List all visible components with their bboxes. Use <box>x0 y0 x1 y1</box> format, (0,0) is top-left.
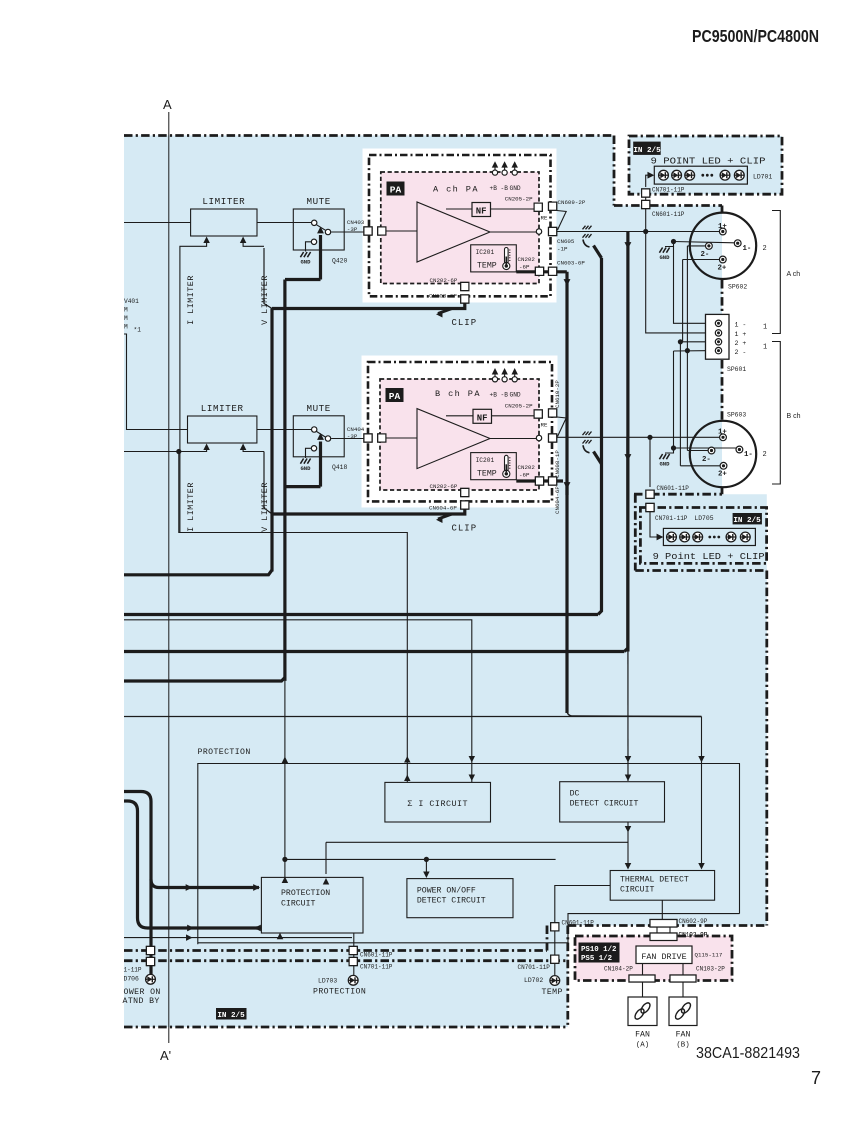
svg-text:I LIMITER: I LIMITER <box>186 275 196 325</box>
wire CN602 to CN102 <box>657 927 670 933</box>
svg-text:CN601-11P: CN601-11P <box>652 211 685 218</box>
PA B inner pink board <box>380 379 539 490</box>
LED LD706 <box>146 974 156 984</box>
label CN202-6P right B <box>518 464 536 479</box>
wire hook power-on from page edge <box>124 792 151 942</box>
label CN701-11P front <box>360 964 393 971</box>
label CN202-6P right A <box>518 256 536 271</box>
svg-text:CN104-2P: CN104-2P <box>604 966 633 973</box>
main board dash-dot border bottom <box>124 1026 568 1029</box>
connector CN601-11P A top <box>642 200 650 208</box>
LED bar dots B <box>708 536 720 539</box>
label CN609-2P A <box>558 199 586 206</box>
svg-text:CLIP: CLIP <box>452 524 478 534</box>
dc detect circuit box <box>560 782 665 822</box>
ground mute B <box>300 459 311 473</box>
label STAND BY fragment <box>123 997 160 1006</box>
relay hook A <box>557 211 566 231</box>
label LD701 <box>753 174 772 181</box>
PA B GND supply <box>510 368 521 399</box>
LED LD701 5 <box>734 170 744 180</box>
mute A switch output contact <box>325 229 365 234</box>
label FAN B <box>676 1031 691 1050</box>
connector CN603-6P A right top <box>549 267 557 275</box>
op-amp triangle A <box>417 202 490 262</box>
wire temp A to connectors <box>516 270 567 273</box>
fan B box <box>669 997 697 1026</box>
wire clip sense bus <box>179 452 407 783</box>
label CN601-11P right <box>562 920 595 927</box>
wire A 2+ to SP601 <box>683 260 715 342</box>
node SP601 2+ junction <box>678 339 683 344</box>
connector CN605-1P A <box>549 227 557 235</box>
main board dash-dot border right of CN601-11P <box>650 204 722 207</box>
svg-text:CN601-11P: CN601-11P <box>360 952 393 959</box>
main board dash-dot border toward CN601 <box>614 204 641 207</box>
PA A inner pink board <box>381 172 539 284</box>
svg-text:GND: GND <box>510 392 521 399</box>
connector bar CN103-2P <box>670 975 696 982</box>
wire mute bus to page edge <box>124 678 285 682</box>
svg-text:(A): (A) <box>636 1042 649 1050</box>
thermometer icon A <box>503 248 511 270</box>
PROTECTION label <box>198 748 251 757</box>
arrow protection line up <box>282 757 288 763</box>
svg-text:GND: GND <box>659 254 670 261</box>
temp A wire corner to protection line <box>567 710 702 717</box>
label CN701-11P A <box>652 187 685 194</box>
connector CN604-6P B right <box>549 477 557 485</box>
dc detect circuit label <box>570 790 639 809</box>
wire fan drive to CN104 <box>642 964 644 976</box>
TEMP label A <box>477 262 497 271</box>
label A ch <box>787 271 801 278</box>
PA B +B supply <box>490 368 499 399</box>
V LIMITER label B <box>260 482 270 532</box>
border vertical at x=568 <box>566 926 569 1028</box>
svg-text:CN701-11P: CN701-11P <box>360 964 393 971</box>
svg-text:Q115-117: Q115-117 <box>695 952 723 959</box>
svg-text:SP601: SP601 <box>727 366 746 373</box>
svg-text:Q420: Q420 <box>332 258 348 265</box>
svg-text:CN605: CN605 <box>557 238 575 245</box>
svg-text:MUTE: MUTE <box>306 196 330 207</box>
speaker boundary dash-dot segment SP602-SP601 <box>721 280 724 316</box>
9 POINT LED + CLIP label <box>651 156 766 167</box>
label B ch <box>787 413 801 420</box>
front panel border upper <box>124 949 547 952</box>
wire B out tap down <box>626 437 629 651</box>
border below speakers <box>634 493 722 496</box>
connector bar CN602-9P top <box>650 920 677 928</box>
svg-text:GND: GND <box>510 185 521 192</box>
mute B switch output contact <box>325 436 365 441</box>
wire B 2+ down <box>679 342 681 466</box>
wire amp A output <box>490 231 536 233</box>
wire sensor B to bus <box>594 452 602 465</box>
PA B title B ch PA <box>435 389 481 399</box>
section marker A' <box>160 1048 171 1063</box>
connector bar CN104-2P top <box>629 975 655 982</box>
svg-text:2-: 2- <box>701 251 710 259</box>
limiter B box <box>188 416 257 443</box>
op-amp triangle B <box>417 409 490 469</box>
arrow clip sense into protection line 2 <box>404 775 410 781</box>
connector CN202-6P B bottom top <box>461 488 469 496</box>
sigma I circuit label <box>407 799 468 809</box>
label CN701-11P right <box>518 964 551 971</box>
label CN103-2P <box>696 966 725 973</box>
power on-off detect box <box>407 879 513 918</box>
connector CN603-6P A bottom <box>461 295 469 303</box>
label CN603-6P A <box>557 260 585 267</box>
SP602 terminal 2- <box>687 243 712 260</box>
wire output bus to page edge 3 <box>124 650 624 653</box>
connector CN601-11P right <box>551 923 559 931</box>
label CN610-2P B <box>554 380 561 408</box>
svg-text:1: 1 <box>763 344 767 352</box>
label CN603-6P bottom A <box>429 293 457 300</box>
limiter A box <box>191 209 257 236</box>
wire power-on chain <box>149 941 152 975</box>
wire mute drive bus vertical <box>285 280 321 681</box>
SP603 terminal 2+ <box>680 462 727 478</box>
ground mute A <box>300 252 311 266</box>
mute A switch input contact <box>293 220 317 225</box>
svg-text:V LIMITER: V LIMITER <box>260 482 270 532</box>
label CN202-6P bottom A <box>430 277 458 284</box>
fan A icon <box>633 1001 651 1020</box>
svg-text:A: A <box>163 97 172 112</box>
wire dc to protection <box>323 842 628 884</box>
svg-text:B ch: B ch <box>787 413 801 420</box>
svg-text:2+: 2+ <box>718 265 727 273</box>
wire protection circuit to front panel <box>353 933 355 975</box>
svg-text:M: M <box>124 315 128 322</box>
svg-text:IC201: IC201 <box>476 457 495 464</box>
arrow protection feed 2 <box>253 884 260 891</box>
svg-text:CN202-6P: CN202-6P <box>430 277 458 284</box>
svg-text:PA: PA <box>390 185 402 196</box>
svg-text:IN 2/5: IN 2/5 <box>633 147 661 155</box>
svg-text:CN202: CN202 <box>518 256 536 263</box>
LED LD705 3 <box>693 532 703 542</box>
label 1-11P fragment <box>124 967 142 974</box>
connector CN205-2P B top <box>534 410 542 418</box>
svg-text:SP602: SP602 <box>728 284 747 291</box>
label CN404-3P <box>347 426 365 440</box>
connector CN604-6P B right top <box>549 477 557 485</box>
wire thermal to CN602 <box>661 900 663 919</box>
svg-text:PS10 1/2: PS10 1/2 <box>581 946 616 954</box>
LED LD705 2 <box>680 532 690 542</box>
svg-text:ATND BY: ATND BY <box>123 997 160 1006</box>
V limiter A feedback <box>240 237 264 247</box>
clip A wire <box>264 248 465 309</box>
label CN102-9P <box>679 931 708 938</box>
IC201 label A <box>476 249 495 256</box>
svg-text:CN103-2P: CN103-2P <box>696 966 725 973</box>
wire CN104 to fan A <box>642 982 644 997</box>
arrow standby feed 1 <box>187 925 194 932</box>
label CN403-3P <box>347 219 365 233</box>
wire NF B to CN205 <box>492 415 535 417</box>
wire hook stand-by from page edge <box>124 801 258 928</box>
connector CN601-11P A <box>642 200 650 208</box>
label CN102-9P top <box>679 931 708 938</box>
wire protection thick into box <box>151 880 259 888</box>
svg-text:7: 7 <box>811 1068 821 1088</box>
SP601 terminal 2+ <box>715 339 746 347</box>
label CN205-2P B <box>505 403 533 410</box>
speaker SP603 <box>690 421 756 487</box>
wire temp to thermal vertical <box>698 717 704 870</box>
thermometer icon B <box>503 455 511 477</box>
connector CN201-3P B top <box>378 434 386 442</box>
arrow into protection circuit top <box>282 877 288 883</box>
svg-text:RE: RE <box>541 422 548 429</box>
LED bar dots <box>701 174 713 177</box>
thermal detect box <box>610 871 714 901</box>
connector CN403-3P <box>364 227 372 235</box>
front panel border upper corner up <box>546 926 549 951</box>
connector CN610-2P B top <box>549 409 557 417</box>
connector CN609-2P A top <box>549 202 557 210</box>
I LIMITER label B <box>186 482 196 532</box>
mute A drive arrow <box>317 227 324 280</box>
connector CN601-11P B top <box>646 490 654 498</box>
svg-text:CN202-6P: CN202-6P <box>430 483 458 490</box>
relay RE label A <box>541 215 548 222</box>
speaker SP602 <box>690 213 756 279</box>
wire SP601 2- line <box>674 351 716 448</box>
LED LD705 4 <box>726 532 736 542</box>
svg-text:CN604-6P: CN604-6P <box>554 486 561 514</box>
bracket channel 2 B label <box>763 451 767 459</box>
protection vertical from mute bus <box>284 681 286 877</box>
label D706 fragment <box>124 976 140 983</box>
connector CN403-3P top <box>364 227 372 235</box>
document number <box>696 1045 800 1062</box>
arrow standby feed 2 <box>254 925 261 932</box>
power on-off detect label <box>417 886 486 906</box>
ground B speaker <box>659 445 676 467</box>
label CN601-11P B <box>657 485 690 492</box>
svg-text:IC201: IC201 <box>476 249 495 256</box>
label FAN A <box>635 1031 650 1050</box>
speaker boundary dash-dot segment above SP602 <box>721 206 724 214</box>
mute A label <box>306 196 330 207</box>
node A output CN601 junction <box>643 229 648 234</box>
svg-text:TEMP: TEMP <box>542 988 563 997</box>
clip B wire <box>264 452 465 515</box>
svg-text:A ch PA: A ch PA <box>433 185 479 195</box>
svg-text:LIMITER: LIMITER <box>201 403 244 414</box>
svg-text:CN603-6P: CN603-6P <box>557 260 585 267</box>
NF B feedback line <box>446 415 473 417</box>
V LIMITER label A <box>260 275 270 325</box>
thermal detect label <box>620 876 689 895</box>
node I limiter bus junction <box>176 449 181 454</box>
PA A -B supply <box>501 161 509 192</box>
current sensor B <box>583 432 592 453</box>
svg-text:CN609-2P: CN609-2P <box>558 199 586 206</box>
svg-text:CN202: CN202 <box>518 464 536 471</box>
arrow into power detect <box>423 859 429 878</box>
IN 2/5 tag top <box>633 142 661 156</box>
clip B arrow stub <box>436 514 452 523</box>
svg-text:FAN: FAN <box>676 1031 691 1040</box>
wire NF A to CN205 <box>491 208 535 210</box>
svg-text:GND: GND <box>300 259 311 266</box>
wire dc detect top arrows <box>625 756 631 781</box>
connector bar CN104-2P <box>629 975 655 982</box>
svg-text:CN205-2P: CN205-2P <box>505 196 533 203</box>
PA A label tag <box>387 182 405 196</box>
svg-text:LD703: LD703 <box>318 978 337 985</box>
speaker boundary dash-dot segment SP601-SP603 <box>721 360 724 422</box>
label CN202-6P bottom B <box>430 483 458 490</box>
fan A box <box>628 997 657 1026</box>
main board dash-dot border top <box>124 134 614 137</box>
wire CN102 to fan drive <box>662 941 664 947</box>
connector power-on lower top <box>146 957 154 965</box>
svg-text:V401: V401 <box>124 298 139 305</box>
svg-text:Q418: Q418 <box>332 464 348 471</box>
svg-text:CN604-6P: CN604-6P <box>429 505 457 512</box>
wire CN601A chain <box>645 197 647 232</box>
svg-text:1-: 1- <box>744 451 753 459</box>
svg-text:DETECT CIRCUIT: DETECT CIRCUIT <box>417 897 486 906</box>
temp B wire join <box>564 482 571 495</box>
mute A gnd elbow <box>306 242 311 252</box>
mute B label <box>306 403 330 414</box>
connector CN701-11P A <box>642 189 650 197</box>
wire output A tap corner <box>624 232 628 652</box>
svg-text:-6P: -6P <box>519 472 530 479</box>
IN2/5 bottom board dash-dot box <box>640 508 766 564</box>
clip B label <box>452 524 478 534</box>
svg-text:CN701-11P: CN701-11P <box>655 515 688 522</box>
svg-text:LD702: LD702 <box>524 977 543 984</box>
svg-text:PS5 1/2: PS5 1/2 <box>581 955 612 963</box>
PA A title A ch PA <box>433 185 479 195</box>
fan B icon <box>674 1001 692 1020</box>
wire fuse bus corner <box>598 258 602 615</box>
svg-text:CN205-2P: CN205-2P <box>505 403 533 410</box>
LED LD701 2 <box>672 170 682 180</box>
white hole behind B-ch PA block <box>362 356 558 508</box>
svg-text:CN602-9P: CN602-9P <box>679 918 708 925</box>
connector CN701-11P right <box>551 955 559 963</box>
connector CN605-1P A top <box>549 227 557 235</box>
svg-text:-B: -B <box>501 392 509 399</box>
wire CN103 to fan B <box>682 982 684 997</box>
svg-text:1-11P: 1-11P <box>124 967 142 974</box>
IC201 label B <box>476 457 495 464</box>
connector CN202-6P B right <box>535 477 543 485</box>
svg-text:38CA1-8821493: 38CA1-8821493 <box>696 1045 800 1062</box>
label LD703 <box>318 978 337 985</box>
fan drive pink board <box>575 936 732 981</box>
wire temp collect line <box>124 716 702 718</box>
section line A-A' <box>168 112 170 1043</box>
PA B output relay contact <box>536 435 541 440</box>
svg-text:GND: GND <box>659 461 670 468</box>
svg-text:V LIMITER: V LIMITER <box>260 275 270 325</box>
connector CN601-11P right top <box>551 923 559 931</box>
wire B output line <box>557 436 723 438</box>
svg-text:Σ I CIRCUIT: Σ I CIRCUIT <box>407 799 468 809</box>
label CN604-6P bottom B <box>429 505 457 512</box>
wire output bus to page edge 2 <box>124 613 598 616</box>
svg-text:CLIP: CLIP <box>452 318 478 328</box>
wire temp B to connectors <box>516 479 563 482</box>
connector CN404-3P <box>364 434 372 442</box>
node SP601 2- junction <box>685 348 690 353</box>
svg-text:+B: +B <box>490 392 498 399</box>
svg-text:2: 2 <box>763 245 767 253</box>
current sensor A <box>583 226 592 247</box>
transistor Q418 label <box>332 464 348 471</box>
svg-text:1-: 1- <box>743 245 752 253</box>
svg-text:-1P: -1P <box>557 246 568 253</box>
wire A 1- to SP601 <box>674 247 716 324</box>
mute B box <box>293 416 344 457</box>
wire limiter B to mute B <box>257 429 293 431</box>
connector CN205-2P A top <box>534 203 542 211</box>
svg-text:CIRCUIT: CIRCUIT <box>620 886 654 895</box>
NF B box <box>473 409 492 423</box>
wire into LED bar B <box>650 512 663 541</box>
svg-text:CN403: CN403 <box>347 219 365 226</box>
svg-text:DETECT CIRCUIT: DETECT CIRCUIT <box>570 800 639 809</box>
wire B CN601 chain <box>649 437 651 487</box>
svg-text:FAN: FAN <box>635 1031 650 1040</box>
PA A output relay contact <box>536 229 541 234</box>
svg-text:2-: 2- <box>702 456 711 464</box>
protection circuit label <box>281 889 330 909</box>
connector CN201-3P B <box>378 434 386 442</box>
label TEMP front <box>542 988 563 997</box>
connector power-on upper top <box>146 946 154 954</box>
PA B -B supply <box>501 368 509 399</box>
LED LD702 <box>550 976 560 986</box>
V limiter B feedback <box>240 444 264 452</box>
connector CN609-2P A <box>549 202 557 210</box>
wire standby into box <box>256 926 261 929</box>
SP601 terminal 1- <box>715 320 746 328</box>
svg-text:D706: D706 <box>124 976 140 983</box>
connector power-on upper <box>146 946 154 954</box>
clip A arrow stub <box>436 309 452 318</box>
arrow clip sense into protection line 1 <box>404 756 410 762</box>
IN 2/5 top LED board blue region <box>629 136 782 194</box>
connector CN205-2P A <box>534 203 542 211</box>
PA A outer dash-dot box <box>369 155 551 296</box>
svg-text:FAN DRIVE: FAN DRIVE <box>641 952 686 962</box>
svg-text:B ch PA: B ch PA <box>435 389 481 399</box>
LED LD705 5 <box>740 532 750 542</box>
front panel border lower <box>124 959 568 962</box>
LED LD701 3 <box>685 170 695 180</box>
wire thermal left link <box>555 886 610 922</box>
PA B outer dash-dot box <box>368 362 552 501</box>
I limiter B feedback <box>179 444 210 452</box>
fan drive box <box>636 946 692 964</box>
connector CN701-11P B top <box>646 503 654 511</box>
wire A 2- down <box>686 246 688 451</box>
